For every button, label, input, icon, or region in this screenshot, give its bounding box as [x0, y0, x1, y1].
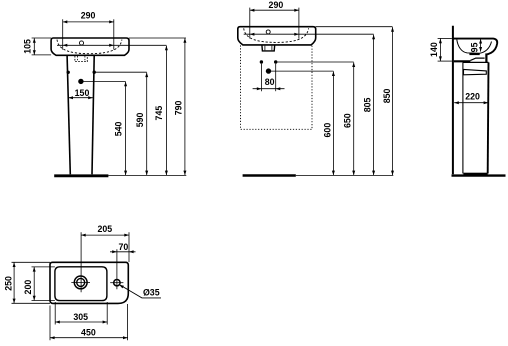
drain vertical / 205 extension — [80, 232, 82, 292]
wire: connector from drain dot to 540 — [81, 80, 126, 82]
fixing dot left (middle) — [260, 60, 263, 63]
drain dot (middle) — [266, 68, 271, 73]
floor line (side) — [452, 174, 506, 176]
svg-text:205: 205 — [97, 224, 112, 234]
tap vertical / 70 extension — [116, 249, 118, 289]
dashed recess outline — [241, 45, 313, 129]
solid trap (middle) — [262, 45, 275, 51]
overflow hole circle — [79, 41, 83, 45]
dimension 790 line — [184, 38, 186, 175]
dimension 590 line — [146, 73, 148, 176]
wire: bowl-level line across to 745 — [57, 44, 166, 46]
dimension 450 extension lines — [49, 306, 51, 341]
svg-text:200: 200 — [23, 280, 33, 295]
wire: connector from right fixing dot to 590 — [94, 71, 147, 73]
drain dot — [78, 79, 83, 84]
underside step — [470, 58, 484, 60]
svg-text:80: 80 — [265, 77, 275, 87]
dimension 105 line — [33, 38, 35, 55]
basin side profile: rim + front face — [453, 39, 497, 55]
svg-text:250: 250 — [4, 276, 14, 291]
drain outer circle — [74, 276, 87, 289]
dimension 290 extension lines — [62, 19, 64, 49]
dimension 290 extension lines (middle) — [249, 8, 251, 39]
dimension 200 line — [33, 267, 35, 300]
dimension 200 extension lines — [32, 266, 55, 268]
svg-text:790: 790 — [173, 100, 183, 115]
dimension 745 line — [165, 46, 167, 176]
bowl section curve — [457, 40, 492, 54]
dimension 220 line — [454, 102, 488, 104]
plan outer outline — [50, 262, 128, 303]
waste flange bar — [469, 53, 479, 55]
svg-text:105: 105 — [23, 39, 33, 54]
drain inner circle — [77, 278, 85, 286]
dimension 140 extension lines — [438, 37, 452, 39]
dimension 250 line — [13, 262, 15, 303]
basin front skirt — [485, 53, 487, 62]
dimension 805 line — [373, 35, 375, 176]
pedestal left edge — [67, 56, 70, 174]
wire: rim-top extension line to 790 — [129, 37, 186, 39]
wire: connector from drain dot to 600 — [269, 70, 334, 72]
leader line for tap hole diameter — [120, 285, 161, 298]
pedestal top edge (side) — [463, 61, 489, 63]
fixing dot left — [67, 71, 70, 74]
dimension 540 line — [125, 82, 127, 176]
pedestal base bar — [463, 173, 487, 176]
svg-text:600: 600 — [323, 123, 333, 138]
fixing dot right (middle) — [274, 60, 277, 63]
dimension 250 extension lines — [12, 261, 51, 263]
floor thick line (middle) — [243, 174, 296, 177]
bowl-level 290 arrows — [63, 44, 68, 47]
dimension 450 line — [50, 337, 128, 339]
svg-text:95: 95 — [469, 42, 479, 52]
siphon slot — [464, 69, 487, 74]
basin outline (wall-hung front view) — [238, 27, 316, 45]
dimension 80 extension lines — [260, 64, 262, 91]
dimension 290 line — [63, 21, 114, 23]
wire: bowl-level line across to 805 — [244, 33, 374, 35]
floor thin baseline — [108, 174, 186, 176]
tap hole circle — [114, 280, 120, 286]
bowl dashed arc — [57, 40, 122, 54]
fixing dot right — [93, 71, 96, 74]
svg-text:220: 220 — [465, 91, 480, 101]
dimension 290 line (middle) — [250, 9, 299, 11]
dimension 70 line — [110, 251, 136, 253]
svg-text:850: 850 — [382, 88, 392, 103]
wire: rim-top extension line to 850 — [316, 26, 393, 28]
svg-text:805: 805 — [363, 97, 373, 112]
wall line — [452, 26, 454, 175]
pedestal rear edge (side) — [462, 62, 464, 173]
overflow hole circle (middle) — [266, 30, 270, 34]
svg-text:650: 650 — [343, 113, 353, 128]
dimension 150 line — [68, 97, 92, 99]
svg-text:70: 70 — [119, 242, 129, 252]
svg-text:290: 290 — [269, 0, 284, 10]
dashed trap under basin — [75, 56, 87, 62]
pedestal front edge (side) — [487, 62, 490, 173]
underside rear ledge — [454, 60, 471, 62]
svg-text:540: 540 — [114, 121, 124, 136]
dimension 80 line — [253, 88, 285, 90]
svg-text:140: 140 — [429, 42, 439, 57]
dimension 600 line — [332, 71, 334, 175]
pedestal right edge — [92, 56, 94, 174]
dimension 205 line — [81, 234, 129, 236]
floor thick line — [54, 174, 108, 177]
dimension 650 line — [353, 62, 355, 175]
wire: connector from right fixing dot to 650 — [276, 61, 354, 63]
svg-text:745: 745 — [154, 106, 164, 121]
svg-text:305: 305 — [73, 312, 88, 322]
svg-text:590: 590 — [135, 112, 145, 127]
bowl-level 290 arrows (middle) — [250, 33, 255, 36]
floor thin baseline (middle) — [296, 174, 394, 176]
plan inner bowl — [55, 267, 107, 301]
basin outline (front view) — [51, 38, 129, 55]
svg-text:Ø35: Ø35 — [143, 288, 160, 298]
dimension 305 extension lines — [54, 302, 56, 325]
dimension 140 line — [439, 39, 441, 61]
dimension 105 extension lines — [32, 37, 51, 39]
bowl dashed arc (middle) — [244, 28, 309, 42]
svg-text:290: 290 — [81, 10, 96, 20]
dimension 850 line — [392, 27, 394, 175]
tap crosshair horizontal — [110, 282, 123, 284]
shared right extension line — [128, 232, 130, 262]
dimension 95 line — [480, 39, 482, 52]
dimension 305 line — [55, 321, 107, 323]
drain crosshair horizontal — [71, 281, 90, 283]
svg-text:450: 450 — [81, 328, 96, 338]
svg-text:150: 150 — [75, 88, 90, 98]
